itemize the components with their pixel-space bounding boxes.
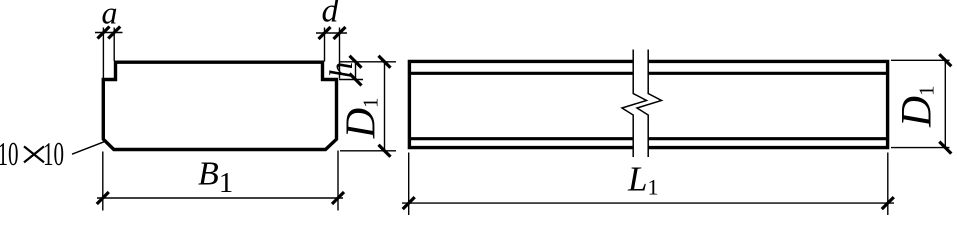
svg-text:10: 10 — [0, 136, 19, 173]
elevation inner bottom line — [409, 137, 887, 140]
ledge extension line for h — [339, 79, 363, 81]
dimension L1 dimension line — [402, 202, 894, 204]
dimension D1 (right view) dimension line — [944, 60, 946, 147]
dimension a dimension line — [95, 32, 123, 34]
dimension a extension lines — [103, 28, 114, 79]
chamfer note multiplication sign — [24, 146, 44, 162]
elevation outline left part — [409, 61, 633, 147]
dimension L1 tick right — [882, 197, 894, 209]
dimension d tick right — [334, 27, 346, 39]
svg-text:a: a — [102, 0, 118, 31]
dimension D1 (right view) label — [894, 85, 941, 128]
dimension a tick left — [98, 27, 110, 39]
dimension L1 extension lines — [409, 153, 888, 216]
break line left polyline — [622, 50, 647, 158]
dimension B1 dimension line — [97, 197, 343, 199]
dimension B1 tick right — [332, 192, 344, 204]
dimension h dimension line — [355, 62, 357, 80]
dimension h tick bottom — [350, 74, 362, 86]
dimension d dimension line — [316, 32, 347, 34]
dimension D1 (left view) label — [339, 97, 385, 139]
dimension a tick right — [108, 27, 120, 39]
break line right polyline — [637, 50, 662, 158]
dimension B1 tick left — [97, 192, 109, 204]
svg-text:D1: D1 — [894, 85, 941, 128]
dimension D1 (right view) extension lines — [891, 60, 950, 147]
dimension d extension lines — [325, 28, 340, 79]
dimension D1 (right view) tick bottom — [939, 142, 951, 154]
dimension D1 (right view) tick top — [939, 54, 951, 66]
dimension D1 (left view) dimension line — [384, 62, 386, 151]
chamfer leader line — [72, 142, 104, 154]
dimension D1 (left view) tick top — [379, 56, 391, 68]
svg-text:D1: D1 — [339, 97, 385, 139]
bottom extension line to D1 (left view) — [340, 150, 396, 152]
svg-text:L1: L1 — [627, 160, 658, 200]
svg-text:B1: B1 — [198, 156, 233, 200]
svg-text:10: 10 — [43, 136, 64, 173]
section outline (left view, slab cross-section with top rebates and bottom chamfers) — [103, 62, 336, 149]
chamfer note 10x10 — [0, 136, 19, 173]
dimension D1 (left view) tick bottom — [379, 145, 391, 157]
dimension d tick left — [319, 27, 331, 39]
dimension B1 extension lines — [103, 151, 338, 211]
dimension L1 tick left — [403, 197, 415, 209]
dimension h label — [324, 62, 360, 79]
elevation inner top line — [409, 72, 887, 75]
elevation outline right part — [648, 61, 887, 147]
svg-text:d: d — [322, 0, 340, 30]
svg-text:h: h — [324, 62, 360, 79]
dimension h tick top — [350, 56, 362, 68]
top extension line to D1 (left view) — [339, 61, 396, 63]
